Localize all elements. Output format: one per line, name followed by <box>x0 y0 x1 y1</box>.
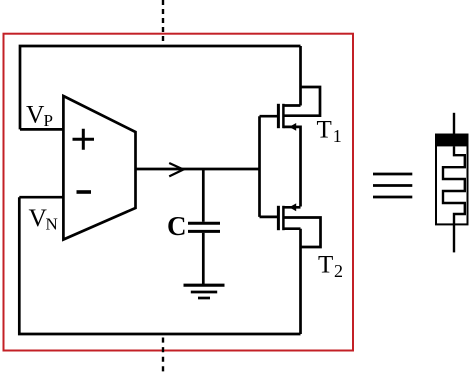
T2 source lead (top) with arrow <box>283 206 300 209</box>
svg-text:T: T <box>318 252 333 279</box>
svg-text:T: T <box>317 117 332 144</box>
red emulator boundary box <box>4 34 354 351</box>
T1 source arrow <box>289 123 296 131</box>
svg-text:2: 2 <box>334 261 343 281</box>
svg-text:V: V <box>26 100 45 129</box>
transistor T1 channel bar <box>282 104 285 128</box>
T1 source lead with arrow <box>283 127 300 207</box>
svg-text:P: P <box>44 111 53 130</box>
memristor meander <box>443 146 465 224</box>
wire: VN input lead <box>19 196 63 199</box>
wire: op-amp output to gate node <box>136 168 260 171</box>
equivalence sign <box>373 174 412 197</box>
wire: gate node vertical + gate leads <box>260 116 278 217</box>
memristor body box <box>436 135 468 225</box>
capacitor C plates <box>188 223 220 231</box>
T1 body-to-drain jog <box>284 87 320 116</box>
wire: capacitor branch down <box>202 169 205 222</box>
ground symbol <box>184 284 225 287</box>
arrowhead on output wire <box>169 163 183 176</box>
transistor T2 gate bar <box>277 206 280 230</box>
wire: VP input lead <box>20 128 63 131</box>
memristor electrode (filled bar) <box>435 134 469 147</box>
dashed terminal line (bottom) <box>162 338 164 375</box>
T2 drain lead (bottom) <box>283 229 300 334</box>
transistor T1 gate bar <box>277 104 280 128</box>
svg-text:N: N <box>46 215 58 234</box>
op-amp plus input marking <box>73 129 95 150</box>
T2 body-to-drain jog <box>284 218 320 248</box>
op-amp U1 body (trapezoid) <box>63 96 135 240</box>
wire: capacitor to ground <box>202 233 205 284</box>
memristor bottom lead <box>453 224 455 252</box>
dashed terminal line (top) <box>162 0 164 47</box>
T2 source arrow <box>289 203 296 211</box>
op-amp minus input marking <box>77 190 92 194</box>
wire: VN rail (left down) + bottom rail to T2 drain <box>19 197 300 334</box>
memristor top lead <box>453 113 455 135</box>
svg-text:C: C <box>167 211 187 241</box>
svg-text:1: 1 <box>333 126 342 146</box>
wire: VP rail (left up) + top rail to T1 drain <box>20 46 301 129</box>
T1 drain lead <box>283 46 300 106</box>
transistor T2 channel bar <box>282 206 285 230</box>
